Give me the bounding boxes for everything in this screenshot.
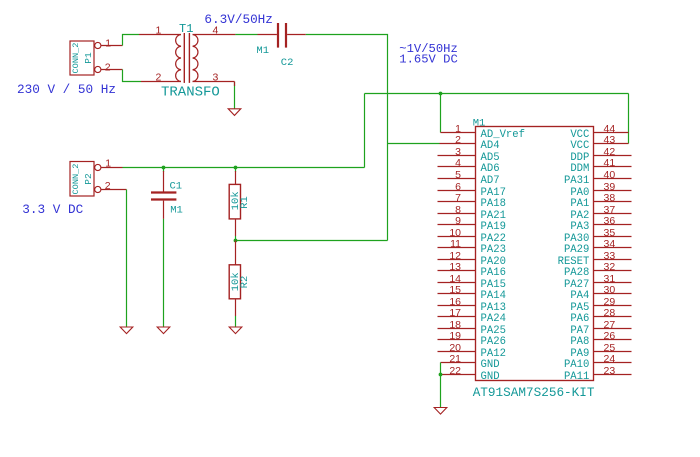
svg-text:230 V / 50 Hz: 230 V / 50 Hz — [17, 82, 116, 97]
junction at R1 top — [234, 166, 238, 170]
pin 42 (right, DDP) — [570, 146, 631, 164]
junction at node (440.5,93.5) — [439, 92, 443, 96]
wire R2 bottom to ground — [235, 316, 237, 327]
junction at R1/R2 node — [234, 239, 238, 243]
wire R1 bottom to junction — [235, 236, 237, 241]
capacitor C1 — [151, 168, 183, 219]
pin 10 (left, PA22) — [438, 227, 506, 245]
svg-text:PA10: PA10 — [564, 359, 589, 371]
connector P1 — [70, 37, 123, 75]
svg-text:AT91SAM7S256-KIT: AT91SAM7S256-KIT — [473, 385, 595, 400]
pin 6 (left, PA17) — [438, 181, 506, 199]
resistor R2 — [229, 241, 251, 317]
pin 3 (left, AD5) — [438, 146, 500, 164]
pin 1 (left, AD_Vref) — [441, 123, 526, 141]
svg-text:PA23: PA23 — [481, 244, 506, 256]
pin 12 (left, PA20) — [438, 250, 506, 268]
pin 15 (left, PA14) — [438, 284, 506, 302]
wire C2 to node A (down to R1/R2 junction) — [306, 35, 388, 241]
svg-text:5: 5 — [455, 169, 461, 181]
pin 18 (left, PA25) — [438, 319, 506, 337]
svg-text:TRANSFO: TRANSFO — [161, 85, 220, 101]
IC M1 AT91SAM7S256-KIT body — [473, 117, 595, 400]
pin 20 (left, PA12) — [438, 342, 506, 360]
svg-text:P1: P1 — [83, 52, 94, 64]
wire T1 pin4 to C2 — [235, 34, 257, 36]
pin 26 (right, PA8) — [570, 330, 631, 348]
svg-text:PA11: PA11 — [564, 371, 589, 383]
pin 29 (right, PA5) — [570, 296, 631, 314]
svg-text:32: 32 — [604, 261, 616, 273]
svg-text:PA4: PA4 — [570, 290, 589, 302]
pin 35 (right, PA30) — [564, 227, 632, 245]
pin 13 (left, PA16) — [438, 261, 506, 279]
svg-text:M1: M1 — [170, 205, 183, 217]
svg-text:PA6: PA6 — [570, 313, 589, 325]
svg-text:1: 1 — [156, 25, 162, 37]
svg-text:23: 23 — [604, 365, 616, 377]
pin 9 (left, PA19) — [438, 215, 506, 233]
svg-text:19: 19 — [449, 330, 461, 342]
wire junction row y240.5 to node A — [236, 240, 388, 242]
svg-text:PA14: PA14 — [481, 290, 506, 302]
svg-text:PA28: PA28 — [564, 267, 589, 279]
pin 11 (left, PA23) — [438, 238, 506, 256]
svg-text:11: 11 — [450, 238, 461, 250]
svg-text:1: 1 — [105, 37, 111, 49]
pin 43 (right, VCC) — [570, 134, 628, 152]
pin 4 (left, AD6) — [438, 157, 500, 175]
svg-text:M1: M1 — [473, 117, 486, 129]
wire VCC drop (right side to pins 44/43) — [628, 94, 630, 144]
wire IC pins 21/22 GND to ground — [440, 363, 442, 408]
svg-text:R2: R2 — [239, 276, 251, 289]
svg-text:AD6: AD6 — [481, 163, 500, 175]
svg-text:PA16: PA16 — [481, 267, 506, 279]
svg-text:21: 21 — [449, 353, 461, 365]
svg-text:PA29: PA29 — [564, 244, 589, 256]
pin 38 (right, PA1) — [570, 192, 631, 210]
junction at C1 top — [162, 166, 166, 170]
svg-text:C1: C1 — [170, 181, 183, 193]
wire node A to IC pin2 (AD4) — [388, 143, 440, 145]
svg-text:M1: M1 — [256, 45, 269, 57]
svg-text:1.65V DC: 1.65V DC — [399, 53, 458, 67]
pin 17 (left, PA24) — [438, 307, 506, 325]
pin 44 (right, VCC) — [570, 123, 628, 141]
capacitor C2 — [256, 23, 305, 69]
pin 37 (right, PA2) — [570, 204, 631, 222]
pin 39 (right, PA0) — [570, 181, 631, 199]
svg-text:PA19: PA19 — [481, 221, 506, 233]
pin 19 (left, PA26) — [438, 330, 506, 348]
svg-text:AD7: AD7 — [481, 175, 500, 187]
svg-text:AD4: AD4 — [481, 140, 500, 152]
pin 23 (right, PA11) — [564, 365, 632, 383]
svg-text:C2: C2 — [281, 57, 294, 69]
pin 21 (left, GND) — [441, 353, 500, 371]
resistor R1 — [229, 168, 251, 237]
pin 41 (right, DDM) — [570, 157, 631, 175]
svg-text:15: 15 — [449, 284, 461, 296]
svg-text:30: 30 — [604, 284, 616, 296]
pin 5 (left, AD7) — [438, 169, 500, 187]
svg-text:GND: GND — [481, 371, 500, 383]
svg-text:DDM: DDM — [570, 163, 589, 175]
svg-text:41: 41 — [604, 157, 616, 169]
svg-text:T1: T1 — [179, 22, 193, 36]
wire vertical C (y93 down to IC pin1) — [440, 94, 442, 133]
pin 27 (right, PA7) — [570, 319, 631, 337]
svg-text:VCC: VCC — [570, 140, 589, 152]
wire P1 pin1 to T1 pin1 — [123, 35, 140, 46]
pin 30 (right, PA4) — [570, 284, 631, 302]
transformer T1 — [139, 22, 235, 101]
svg-text:CONN_2: CONN_2 — [71, 43, 81, 74]
ground (below T1 pin3) — [228, 109, 241, 116]
svg-text:36: 36 — [604, 215, 616, 227]
wire net y93 (to VCC pins) — [365, 93, 629, 95]
svg-text:PA8: PA8 — [570, 336, 589, 348]
pin 22 (left, GND) — [441, 365, 500, 383]
pin 8 (left, PA21) — [438, 204, 506, 222]
svg-text:6.3V/50Hz: 6.3V/50Hz — [204, 12, 273, 27]
svg-text:43: 43 — [604, 134, 616, 146]
pin 7 (left, PA18) — [438, 192, 506, 210]
ground (below P2 pin2) — [120, 327, 133, 334]
svg-text:P2: P2 — [83, 173, 94, 185]
svg-text:28: 28 — [604, 307, 616, 319]
wire P2 pin2 to ground — [126, 190, 128, 328]
ground (below R2) — [229, 327, 242, 334]
wire vertical B (y93 down to P2 net) — [364, 94, 366, 168]
svg-text:PA18: PA18 — [481, 198, 506, 210]
svg-text:2: 2 — [105, 61, 111, 73]
pin 33 (right, RESET) — [558, 250, 632, 268]
pin 24 (right, PA10) — [564, 353, 632, 371]
svg-text:2: 2 — [156, 71, 162, 83]
connector P2 — [70, 157, 127, 196]
svg-text:17: 17 — [449, 307, 461, 319]
svg-text:R1: R1 — [239, 196, 251, 209]
svg-text:PA24: PA24 — [481, 313, 506, 325]
svg-text:22: 22 — [449, 365, 461, 377]
svg-text:38: 38 — [604, 192, 616, 204]
svg-text:PA26: PA26 — [481, 336, 506, 348]
svg-text:2: 2 — [455, 134, 461, 146]
svg-text:40: 40 — [604, 169, 616, 181]
pin 34 (right, PA29) — [564, 238, 632, 256]
svg-text:3.3 V DC: 3.3 V DC — [22, 202, 83, 217]
pin 25 (right, PA9) — [570, 342, 631, 360]
pin 40 (right, PA31) — [564, 169, 632, 187]
pin 32 (right, PA28) — [564, 261, 632, 279]
ground (below C1) — [157, 327, 170, 334]
pin 28 (right, PA6) — [570, 307, 631, 325]
svg-text:13: 13 — [449, 261, 461, 273]
svg-text:PA31: PA31 — [564, 175, 589, 187]
pin 14 (left, PA15) — [438, 273, 506, 291]
svg-text:3: 3 — [213, 71, 219, 83]
ground (below IC) — [434, 408, 447, 415]
wire P2 pin1 net (y167) — [123, 167, 365, 169]
wire T1 pin3 to ground — [234, 82, 236, 109]
pin 2 (left, AD4) — [440, 134, 500, 152]
svg-text:PA3: PA3 — [570, 221, 589, 233]
svg-text:26: 26 — [604, 330, 616, 342]
wire P1 pin2 to T1 pin2 — [123, 70, 142, 82]
wire C1 bottom to ground — [163, 219, 165, 327]
svg-text:7: 7 — [455, 192, 461, 204]
junction at pin 22 — [439, 373, 443, 377]
pin 16 (left, PA13) — [438, 296, 506, 314]
pin 31 (right, PA27) — [564, 273, 632, 291]
svg-text:24: 24 — [604, 353, 616, 365]
svg-text:9: 9 — [455, 215, 461, 227]
svg-text:CONN_2: CONN_2 — [71, 164, 81, 195]
svg-text:34: 34 — [604, 238, 616, 250]
svg-text:PA1: PA1 — [570, 198, 589, 210]
pin 36 (right, PA3) — [570, 215, 631, 233]
svg-text:GND: GND — [481, 359, 500, 371]
svg-text:4: 4 — [455, 157, 461, 169]
